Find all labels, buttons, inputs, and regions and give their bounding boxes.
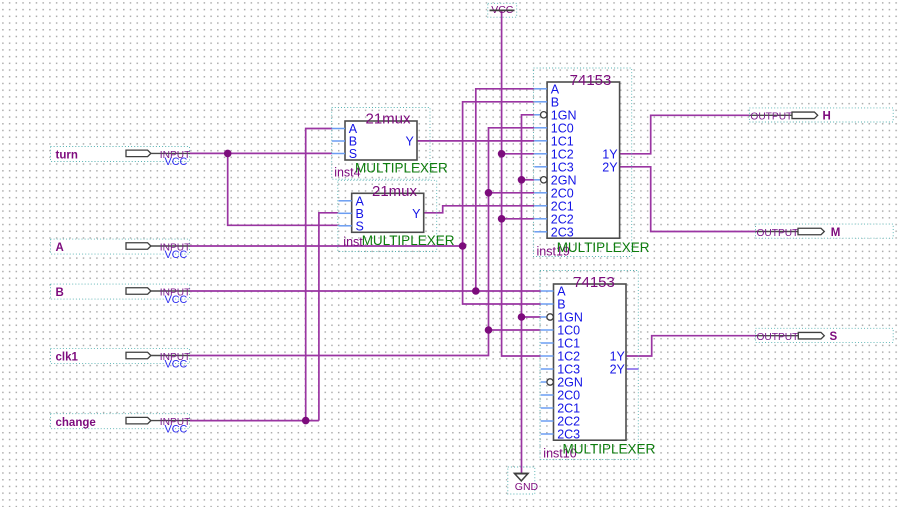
svg-text:change: change bbox=[56, 417, 96, 429]
wire net clk1 bbox=[190, 128, 541, 356]
junction VCC 1C2 bbox=[498, 150, 506, 158]
svg-text:2GN: 2GN bbox=[557, 376, 583, 390]
input pin change bbox=[51, 414, 191, 436]
svg-text:MULTIPLEXER: MULTIPLEXER bbox=[563, 442, 656, 457]
inst19 pin B stub bbox=[534, 95, 559, 109]
junction GND 1GN bbox=[518, 313, 526, 321]
svg-text:2C2: 2C2 bbox=[551, 212, 574, 226]
mux inst4 pin S stub bbox=[332, 147, 357, 161]
svg-text:B: B bbox=[56, 287, 64, 299]
svg-text:turn: turn bbox=[56, 150, 78, 162]
inst19 pin 2C2 stub bbox=[534, 212, 573, 226]
svg-text:1GN: 1GN bbox=[557, 311, 583, 325]
inst10 pin 1C1 stub bbox=[541, 337, 580, 351]
svg-text:1C0: 1C0 bbox=[557, 324, 580, 338]
svg-text:1C2: 1C2 bbox=[557, 350, 580, 364]
inst19 pin 2C1 stub bbox=[534, 199, 573, 213]
inst19 pin 2C0 stub bbox=[534, 186, 573, 200]
svg-text:1GN: 1GN bbox=[551, 108, 577, 122]
wire net GND bbox=[522, 115, 541, 474]
mux inst5 pin B stub bbox=[339, 207, 364, 221]
svg-text:VCC: VCC bbox=[165, 294, 188, 306]
74153 inst19 body bbox=[547, 72, 620, 238]
svg-text:clk1: clk1 bbox=[56, 352, 79, 364]
svg-text:B: B bbox=[557, 298, 565, 312]
svg-text:2C0: 2C0 bbox=[557, 389, 580, 403]
svg-text:74153: 74153 bbox=[570, 72, 612, 89]
junction clk1 1C0 bbox=[485, 326, 493, 334]
input pin B bbox=[51, 284, 191, 306]
inst10 pin B stub bbox=[541, 298, 566, 312]
inst10 pin 1C0 stub bbox=[541, 324, 580, 338]
svg-text:A: A bbox=[551, 82, 560, 96]
mux inst4 pin B stub bbox=[332, 135, 357, 149]
74153 inst19 selection border bbox=[534, 68, 632, 257]
wire net change bbox=[190, 129, 338, 421]
svg-text:M: M bbox=[831, 227, 841, 239]
21mux mux inst4 body bbox=[345, 111, 417, 160]
inst19 pin 1C1 stub bbox=[534, 134, 573, 148]
output pin H bbox=[749, 108, 893, 123]
multiplexer inst5 selection border bbox=[338, 180, 437, 251]
21mux mux inst5 body bbox=[352, 183, 424, 232]
svg-text:2Y: 2Y bbox=[610, 363, 626, 377]
svg-text:H: H bbox=[823, 111, 831, 123]
svg-text:VCC: VCC bbox=[165, 156, 188, 168]
svg-text:inst: inst bbox=[343, 235, 363, 249]
inst10 pin 2C2 stub bbox=[541, 415, 580, 429]
svg-text:B: B bbox=[551, 95, 559, 109]
svg-text:VCC: VCC bbox=[165, 249, 188, 261]
wire mux2 Y to 2C1 bbox=[423, 206, 534, 213]
junction clk1 2C0 bbox=[485, 189, 493, 197]
svg-text:OUTPUT: OUTPUT bbox=[750, 112, 792, 123]
ground GND symbol bbox=[508, 467, 539, 494]
wire 74153 inst19 1Y to output H bbox=[620, 115, 750, 154]
inst10 pin 2GN stub bbox=[541, 376, 583, 390]
svg-text:OUTPUT: OUTPUT bbox=[757, 228, 799, 239]
junction GND 2GN bbox=[518, 176, 526, 184]
multiplexer inst4 selection border bbox=[332, 108, 430, 180]
inst19 pin 1GN stub bbox=[534, 108, 576, 122]
svg-text:2C3: 2C3 bbox=[551, 225, 574, 239]
wire 74153 inst19 2Y to output M bbox=[620, 167, 756, 232]
wire net B bbox=[190, 89, 541, 291]
wire 74153 inst10 2Y stub bbox=[626, 368, 639, 370]
inst19 pin 1C3 stub bbox=[534, 160, 573, 174]
inst10 pin 1C2 stub bbox=[541, 350, 580, 364]
inst19 pin A stub bbox=[534, 82, 560, 96]
inst10 pin 1C3 stub bbox=[541, 363, 580, 377]
wire net A bbox=[190, 102, 541, 304]
inst10 pin 1GN stub bbox=[541, 311, 583, 325]
svg-text:Y: Y bbox=[405, 135, 414, 149]
svg-text:1C0: 1C0 bbox=[551, 121, 574, 135]
svg-text:VCC: VCC bbox=[165, 423, 188, 435]
inst10 pin 2C1 stub bbox=[541, 402, 580, 416]
input pin clk1 bbox=[51, 349, 191, 371]
mux inst4 pin A stub bbox=[332, 122, 358, 136]
mux inst5 pin A stub bbox=[339, 194, 365, 208]
svg-text:VCC: VCC bbox=[165, 358, 188, 370]
svg-text:1Y: 1Y bbox=[610, 350, 626, 364]
svg-text:MULTIPLEXER: MULTIPLEXER bbox=[355, 161, 448, 176]
svg-text:1C3: 1C3 bbox=[551, 160, 574, 174]
svg-text:S: S bbox=[830, 331, 838, 343]
svg-text:2GN: 2GN bbox=[551, 173, 577, 187]
svg-text:2C1: 2C1 bbox=[557, 402, 580, 416]
svg-text:2C3: 2C3 bbox=[557, 428, 580, 442]
output pin M bbox=[756, 224, 894, 239]
inst19 pin 2GN stub bbox=[534, 173, 576, 187]
inst19 pin 2C3 stub bbox=[534, 225, 573, 239]
inst10 pin 2C0 stub bbox=[541, 389, 580, 403]
svg-text:2C2: 2C2 bbox=[557, 415, 580, 429]
power VCC symbol bbox=[488, 3, 517, 17]
input pin turn bbox=[51, 147, 191, 169]
junction B x475 bbox=[472, 287, 480, 295]
wire net turn bbox=[190, 153, 338, 225]
svg-text:2C1: 2C1 bbox=[551, 199, 574, 213]
junction A x462 bbox=[459, 242, 467, 250]
svg-text:2C0: 2C0 bbox=[551, 186, 574, 200]
svg-text:Y: Y bbox=[412, 207, 421, 221]
junction VCC 2C2 bbox=[498, 215, 506, 223]
svg-text:1C1: 1C1 bbox=[551, 134, 574, 148]
74153 inst10 body bbox=[554, 274, 627, 440]
mux inst5 pin S stub bbox=[339, 219, 364, 233]
wire 74153 inst10 1Y to output S bbox=[626, 336, 756, 356]
svg-text:21mux: 21mux bbox=[372, 183, 418, 200]
wire mux1 Y to 1C1 bbox=[417, 140, 534, 142]
svg-text:S: S bbox=[356, 219, 364, 233]
inst19 pin 1C2 stub bbox=[534, 147, 573, 161]
inst10 pin 2C3 stub bbox=[541, 428, 580, 442]
svg-text:MULTIPLEXER: MULTIPLEXER bbox=[362, 233, 455, 248]
output pin S bbox=[756, 328, 894, 343]
svg-text:A: A bbox=[557, 285, 566, 299]
svg-text:S: S bbox=[349, 147, 357, 161]
inst19 pin 1C0 stub bbox=[534, 121, 573, 135]
svg-text:GND: GND bbox=[515, 481, 539, 493]
inst10 pin A stub bbox=[541, 285, 567, 299]
wire net VCC bbox=[502, 10, 541, 356]
junction turn x227 bbox=[224, 150, 232, 158]
junction change x305 bbox=[302, 417, 310, 425]
svg-text:MULTIPLEXER: MULTIPLEXER bbox=[557, 240, 650, 255]
svg-text:1C2: 1C2 bbox=[551, 147, 574, 161]
svg-text:A: A bbox=[56, 242, 64, 254]
svg-text:1Y: 1Y bbox=[602, 147, 618, 161]
svg-text:74153: 74153 bbox=[573, 274, 615, 291]
input pin A bbox=[51, 239, 191, 261]
svg-text:1C1: 1C1 bbox=[557, 337, 580, 351]
74153 inst10 selection border bbox=[540, 271, 638, 460]
svg-text:1C3: 1C3 bbox=[557, 363, 580, 377]
svg-text:21mux: 21mux bbox=[365, 111, 411, 128]
svg-text:2Y: 2Y bbox=[602, 160, 618, 174]
svg-text:OUTPUT: OUTPUT bbox=[757, 332, 799, 343]
